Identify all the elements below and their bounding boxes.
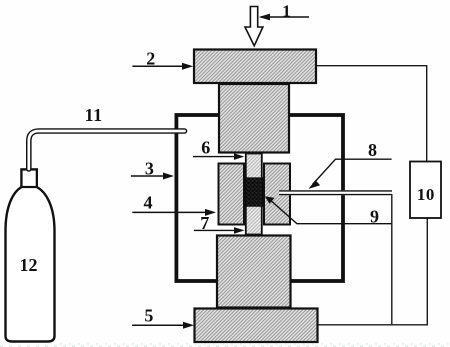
gas cylinder 12 — [6, 170, 55, 342]
svg-text:6: 6 — [201, 137, 210, 157]
bottom platen 5 — [195, 309, 318, 343]
wire: bottom connection from lower platen to box 10 — [319, 218, 428, 325]
scan artifact marks bottom edge — [0, 344, 450, 346]
die block right — [264, 164, 290, 225]
label 1 with hollow press arrow — [245, 1, 309, 45]
label 5 with arrow — [132, 306, 194, 329]
label 7 with arrow — [194, 213, 245, 234]
svg-text:8: 8 — [368, 140, 377, 160]
lower anvil column — [217, 236, 291, 308]
wire: vertical riser from tube 8 down to bottom wire — [391, 194, 393, 325]
frame 3 (press frame rectangle) — [176, 115, 343, 281]
label 2 with arrow — [132, 48, 193, 69]
svg-text:5: 5 — [144, 306, 153, 326]
svg-text:11: 11 — [85, 105, 103, 125]
svg-text:12: 12 — [20, 255, 38, 275]
tube 8 (gas outlet tube) — [279, 190, 392, 195]
svg-text:2: 2 — [146, 48, 155, 68]
label 3 with arrow — [131, 159, 174, 180]
die block left 4 — [219, 164, 245, 225]
label 9 with leader arrow to sample — [265, 196, 392, 226]
svg-text:1: 1 — [282, 1, 291, 20]
piston column 6/7 — [246, 154, 262, 235]
tube 11 (gas inlet tube from cylinder into frame) — [29, 131, 185, 169]
svg-text:10: 10 — [417, 185, 435, 204]
wire: top connection from upper platen to box 10 — [317, 66, 427, 162]
upper anvil column — [219, 84, 289, 153]
sample 9 (black speckled) — [246, 178, 263, 207]
box 10 (measuring instrument) — [410, 162, 441, 219]
svg-text:4: 4 — [144, 193, 153, 213]
label 6 with arrow — [193, 137, 244, 160]
label 8 with leader arrow to tube — [309, 140, 392, 189]
label 4 with arrow — [132, 193, 216, 216]
top platen 2 — [194, 50, 316, 84]
label 11 — [85, 105, 103, 125]
